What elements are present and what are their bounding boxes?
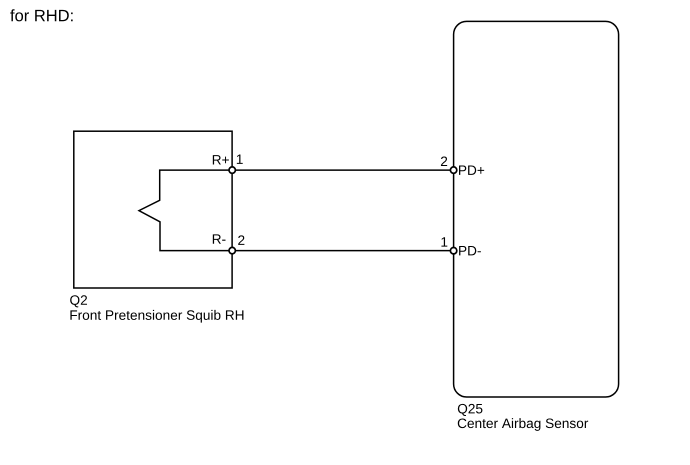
caption Center Airbag Sensor: "Center Airbag Sensor" — [458, 418, 588, 431]
label R-: "R-" — [213, 234, 226, 243]
squib resistor element inside Q2 — [139, 170, 232, 251]
ref Q2: "Q2" — [70, 295, 87, 307]
label PD-: "PD-" — [459, 246, 481, 255]
label PD+: "PD+" — [459, 166, 484, 175]
terminal circle Q2 pin 1 — [229, 167, 235, 173]
pin 2 left: "2" — [238, 235, 244, 245]
terminal circle Q25 pin 1 — [450, 248, 456, 254]
pin 1 left: "1" — [237, 155, 243, 164]
pin 1 right: "1" — [441, 237, 447, 246]
caption Front Pretensioner Squib RH: "Front Pretensioner Squib RH" — [70, 310, 243, 323]
ref Q25: "Q25" — [458, 404, 483, 416]
wire: Q2 pin 2 (R-) to Q25 pin 1 (PD-) — [232, 250, 453, 252]
wire: Q2 pin 1 (R+) to Q25 pin 2 (PD+) — [232, 169, 453, 171]
component box Q25 (Center Airbag Sensor), rounded — [454, 21, 619, 397]
component box Q2 (Front Pretensioner Squib RH) — [74, 131, 232, 288]
terminal circle Q2 pin 2 — [229, 247, 235, 253]
pin 2 right: "2" — [441, 156, 447, 166]
caption for RHD: "for RHD:" — [10, 9, 72, 21]
terminal circle Q25 pin 2 — [450, 167, 456, 173]
label R+: "R+" — [213, 155, 229, 164]
